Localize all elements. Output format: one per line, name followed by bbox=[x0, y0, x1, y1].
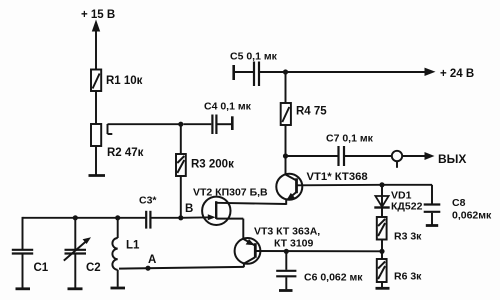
svg-text:R6 3к: R6 3к bbox=[394, 271, 422, 283]
wire C2 to ground bbox=[74, 255, 76, 288]
resistor R1 bbox=[91, 70, 101, 92]
capacitor C7 bbox=[339, 146, 345, 166]
wire C5 to +24V arrow bbox=[260, 71, 426, 73]
ground under C8 bbox=[426, 224, 438, 227]
wire R3 to node B bbox=[180, 176, 182, 218]
junction VT1 base / VD1 bbox=[379, 182, 384, 187]
wire VT3 collector stub bbox=[243, 263, 245, 267]
variable capacitor C2 bbox=[64, 237, 91, 260]
svg-text:C4 0,1 мк: C4 0,1 мк bbox=[204, 101, 252, 113]
svg-text:R4 75: R4 75 bbox=[296, 106, 327, 118]
ground under L1 bbox=[111, 287, 126, 290]
ground under C6 bbox=[279, 289, 293, 292]
junction node B bbox=[178, 215, 183, 220]
wire C4 to ground bbox=[218, 123, 232, 125]
junction bias node R2/R3/C4 bbox=[178, 122, 183, 127]
output arrow bbox=[425, 152, 435, 160]
resistor R4 bbox=[281, 103, 291, 125]
capacitor C4 bbox=[212, 115, 216, 135]
capacitor C6 bbox=[276, 271, 296, 277]
wire R3 to R6 bbox=[381, 240, 383, 260]
wire rail to L1 bbox=[117, 218, 119, 238]
wire connector to output arrow bbox=[402, 155, 425, 157]
capacitor C5 bbox=[254, 62, 259, 87]
wire R4 to VT1 collector bbox=[285, 125, 287, 175]
svg-text:C5 0,1 мк: C5 0,1 мк bbox=[230, 51, 278, 63]
junction C6 branch bbox=[284, 249, 289, 254]
wire R6 to ground bbox=[381, 282, 383, 287]
ground under R6 bbox=[376, 287, 390, 290]
wire VT1 base to VD1 node bbox=[297, 184, 383, 187]
svg-text:C6 0,062 мк: C6 0,062 мк bbox=[304, 272, 363, 284]
junction node A bbox=[145, 266, 150, 271]
svg-text:C2: C2 bbox=[86, 262, 101, 274]
ground right of C4 bbox=[231, 116, 234, 130]
svg-text:R1 10к: R1 10к bbox=[106, 75, 143, 87]
svg-text:VT1* КТ368: VT1* КТ368 bbox=[307, 171, 368, 183]
ground under C2 bbox=[68, 287, 83, 290]
wire rail to C2 bbox=[74, 218, 76, 249]
svg-text:L1: L1 bbox=[126, 240, 140, 252]
svg-text:КТ 3109: КТ 3109 bbox=[274, 238, 314, 250]
wire R1 to R2 bbox=[95, 91, 97, 124]
wire VT3 base to divider bbox=[255, 250, 382, 252]
junction rail / C2 bbox=[73, 215, 78, 220]
svg-text:+ 24 В: + 24 В bbox=[440, 68, 474, 80]
transistor VT2 (JFET) bbox=[202, 197, 230, 225]
svg-text:ВЫХ: ВЫХ bbox=[438, 152, 466, 166]
ground under C1 bbox=[16, 287, 31, 290]
wire bias node to C4 bbox=[184, 123, 212, 125]
junction rail / L1 bbox=[115, 215, 120, 220]
wire VD1 node to C8 bbox=[382, 184, 432, 186]
junction C7 branch bbox=[283, 153, 288, 158]
svg-text:В: В bbox=[185, 203, 193, 215]
wire +15V arrow to R1 bbox=[95, 30, 97, 70]
wire VD1 branch vertical bbox=[381, 185, 383, 217]
svg-text:А: А bbox=[148, 254, 156, 266]
wire node B to VT2 gate bbox=[181, 216, 213, 219]
wire +24V rail to R4 bbox=[285, 72, 287, 103]
capacitor C8 bbox=[424, 205, 441, 212]
wire C8 to ground bbox=[431, 213, 433, 225]
wire C7 to output connector bbox=[345, 155, 392, 157]
wire tank top rail bbox=[23, 217, 146, 219]
wire junction to C7 bbox=[286, 155, 338, 157]
svg-text:0,062мк: 0,062мк bbox=[452, 210, 492, 222]
wire rail to C1 bbox=[22, 217, 24, 249]
R2 wiper tap bbox=[108, 124, 113, 134]
resistor R6 3k bbox=[377, 259, 387, 282]
resistor R3 3k bbox=[377, 217, 387, 240]
resistor R3 200k bbox=[176, 154, 186, 176]
svg-text:R3 200к: R3 200к bbox=[191, 159, 234, 171]
svg-text:C7 0,1 мк: C7 0,1 мк bbox=[326, 133, 374, 145]
transistor VT3 bbox=[235, 238, 261, 264]
+15V supply arrow bbox=[92, 20, 100, 32]
svg-text:VT2 КП307 Б,В: VT2 КП307 Б,В bbox=[193, 187, 268, 199]
svg-text:КД522: КД522 bbox=[391, 201, 423, 213]
wire junction to C6 bbox=[285, 251, 287, 269]
junction +24V rail / R4 bbox=[283, 69, 288, 74]
diode VD1 bbox=[374, 196, 389, 208]
wire bias node to R3 bbox=[180, 124, 182, 154]
wire C6 to ground bbox=[285, 277, 287, 289]
svg-text:+ 15 В: + 15 В bbox=[81, 9, 115, 21]
wire C1 to ground bbox=[22, 255, 24, 288]
svg-text:C1: C1 bbox=[34, 262, 49, 274]
capacitor C3 bbox=[146, 211, 150, 229]
wire VT2 drain to VT1 emitter bbox=[216, 203, 286, 204]
svg-text:R2 47к: R2 47к bbox=[107, 147, 144, 159]
wire L1 to ground bbox=[117, 270, 119, 287]
+24V supply arrow bbox=[425, 68, 436, 76]
wire C3 to node B bbox=[152, 217, 181, 219]
junction R3/R6/VT3 base bbox=[379, 249, 384, 254]
ground under R2 bbox=[89, 174, 106, 177]
svg-text:C3*: C3* bbox=[139, 195, 157, 207]
ground left of C5 bbox=[232, 65, 235, 80]
svg-text:R3 3к: R3 3к bbox=[394, 231, 422, 243]
wire ground to C5 bbox=[235, 71, 253, 73]
capacitor C1 bbox=[12, 250, 33, 254]
svg-text:C8: C8 bbox=[452, 197, 466, 209]
wire VT3 collector to node A bbox=[119, 267, 244, 269]
wire VT1 emitter down bbox=[285, 200, 287, 205]
output connector bbox=[392, 151, 402, 168]
wire R2 to ground bbox=[95, 146, 97, 175]
svg-text:VT3 КТ 363А,: VT3 КТ 363А, bbox=[254, 226, 320, 238]
wire VT2 source right bbox=[216, 218, 243, 220]
transistor VT1 bbox=[276, 174, 302, 201]
wire R2 tap to bias node bbox=[108, 123, 181, 125]
wire down to C8 bbox=[431, 185, 433, 204]
inductor L1 bbox=[112, 238, 117, 270]
resistor R2 (trimmer body) bbox=[91, 124, 101, 146]
wire VT2 source down to VT3 bbox=[242, 219, 244, 240]
